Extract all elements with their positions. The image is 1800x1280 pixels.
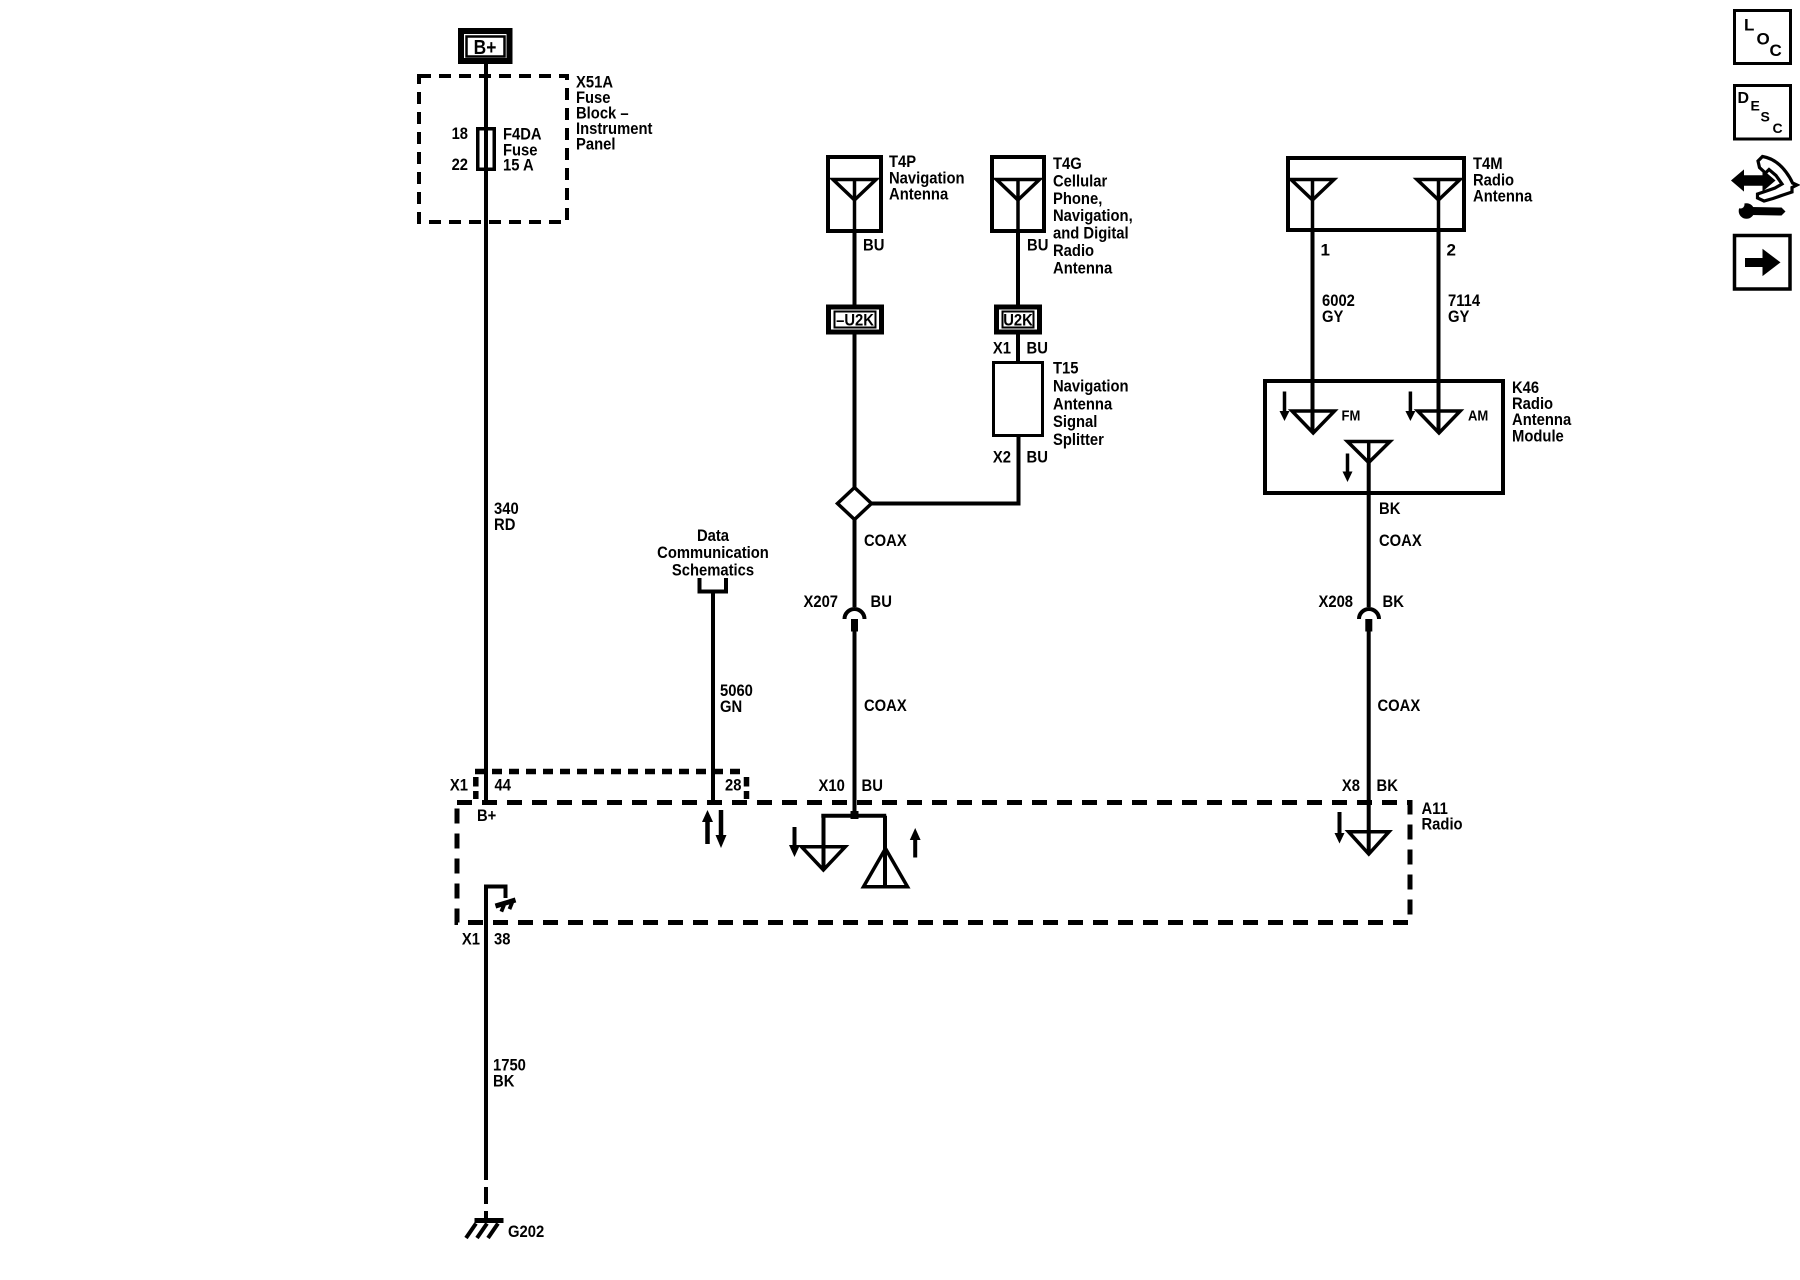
option box U2K <box>997 307 1040 332</box>
internal ground with chassis symbol <box>486 887 518 923</box>
svg-text:Panel: Panel <box>576 135 616 154</box>
X10 junction dot <box>851 811 859 819</box>
wire label 6002 GY <box>1322 291 1355 326</box>
svg-text:COAX: COAX <box>864 696 907 715</box>
svg-text:1: 1 <box>1321 241 1330 260</box>
fuse F4DA <box>478 129 495 170</box>
svg-text:X208: X208 <box>1319 592 1354 611</box>
wire X208 to radio X8 <box>1367 632 1371 854</box>
label T4G Cellular Phone, Navigation, and Digital Radio Antenna <box>1053 154 1133 277</box>
svg-text:GY: GY <box>1448 307 1470 326</box>
antenna symbol in T4P <box>833 180 876 234</box>
svg-text:BU: BU <box>1027 236 1048 255</box>
fuse block X51A dashed box <box>419 76 567 222</box>
wire U2K to T15 pin X1 <box>1016 335 1020 362</box>
connector X208 <box>1319 592 1405 632</box>
wire: B+ feed down to radio pin 44 <box>484 64 488 801</box>
svg-text:BK: BK <box>1379 499 1401 518</box>
svg-text:Radio: Radio <box>1053 241 1094 260</box>
wire K46 to X208 <box>1367 461 1371 607</box>
svg-text:X2: X2 <box>993 448 1011 467</box>
svg-text:BK: BK <box>493 1072 515 1091</box>
svg-text:X1: X1 <box>450 776 468 795</box>
wire bracket to radio pin 28 <box>711 594 715 802</box>
radio A11 dashed box <box>457 803 1410 923</box>
wire diamond to X207 <box>853 520 857 608</box>
wire diamond to T15 X2 <box>872 437 1019 504</box>
svg-text:Antenna: Antenna <box>1053 258 1113 277</box>
svg-text:18: 18 <box>452 124 468 143</box>
splice diamond <box>838 488 872 520</box>
svg-text:GY: GY <box>1322 307 1344 326</box>
svg-text:BU: BU <box>1027 448 1048 467</box>
svg-text:Communication: Communication <box>657 543 769 562</box>
svg-text:38: 38 <box>494 930 510 949</box>
svg-text:22: 22 <box>452 155 468 174</box>
label Data Communication Schematics <box>657 526 769 579</box>
svg-text:U2K: U2K <box>1003 311 1033 330</box>
svg-text:44: 44 <box>495 776 512 795</box>
wire label 1750 BK <box>493 1056 526 1091</box>
antenna symbol 1 in T4M <box>1291 180 1334 233</box>
svg-text:L: L <box>1744 16 1754 35</box>
svg-text:X10: X10 <box>819 776 845 795</box>
connector X1 dotted box with pins 44 and 28 <box>475 772 747 800</box>
radio antenna module K46 box <box>1265 381 1503 493</box>
svg-text:E: E <box>1751 98 1760 114</box>
navigation antenna T4P box <box>828 157 881 231</box>
diagnostic icon (double arrow, outline arrow, wrench) <box>1731 157 1797 219</box>
antenna symbol 2 in T4M <box>1417 180 1460 233</box>
wire T4M pin2 to K46 AM <box>1437 230 1441 432</box>
svg-text:28: 28 <box>725 776 741 795</box>
wire T4G to U2K <box>1016 233 1020 306</box>
connector X207 <box>804 592 892 632</box>
svg-text:BU: BU <box>862 776 883 795</box>
label K46 Radio Antenna Module <box>1512 378 1572 446</box>
svg-text:2: 2 <box>1447 241 1456 260</box>
svg-text:G202: G202 <box>508 1222 544 1241</box>
hyperlink arrow icon box <box>1735 236 1791 290</box>
option box -U2K <box>829 307 882 332</box>
splitter T15 box <box>994 363 1043 436</box>
down arrow left of input <box>789 827 800 857</box>
svg-text:D: D <box>1738 90 1750 107</box>
svg-text:Navigation,: Navigation, <box>1053 206 1133 225</box>
radio antenna T4M box <box>1288 158 1464 230</box>
svg-text:and Digital: and Digital <box>1053 224 1129 243</box>
svg-text:T4G: T4G <box>1053 154 1082 173</box>
svg-text:BU: BU <box>1027 339 1048 358</box>
svg-text:C: C <box>1773 120 1783 136</box>
svg-text:X1: X1 <box>993 339 1011 358</box>
svg-text:Cellular: Cellular <box>1053 171 1108 190</box>
wire T4P to -U2K <box>853 233 857 306</box>
wire -U2K to splice diamond <box>853 335 857 490</box>
svg-text:COAX: COAX <box>1379 531 1422 550</box>
combined antenna output symbol <box>1343 442 1391 483</box>
svg-text:Data: Data <box>697 526 730 545</box>
svg-text:BU: BU <box>863 236 884 255</box>
wire label 340 RD <box>494 499 519 534</box>
wire T4M pin1 to K46 FM <box>1311 230 1315 432</box>
svg-text:X207: X207 <box>804 592 839 611</box>
svg-text:Navigation: Navigation <box>1053 377 1129 396</box>
svg-text:BU: BU <box>871 592 892 611</box>
wire radio pin 38 to ground <box>484 922 488 1163</box>
svg-text:FM: FM <box>1342 407 1361 424</box>
wire X207 to radio X10 <box>853 632 857 814</box>
svg-text:S: S <box>1761 109 1770 125</box>
svg-text:Phone,: Phone, <box>1053 189 1102 208</box>
DESC icon box <box>1735 86 1791 140</box>
svg-text:Antenna: Antenna <box>1473 187 1533 206</box>
power symbol B+ <box>461 31 510 61</box>
svg-text:C: C <box>1770 41 1782 60</box>
svg-text:X8: X8 <box>1342 776 1360 795</box>
svg-text:AM: AM <box>1468 407 1488 424</box>
up arrow right of output <box>910 828 921 858</box>
svg-text:RD: RD <box>494 515 515 534</box>
svg-text:COAX: COAX <box>864 531 907 550</box>
label T15 Navigation Antenna Signal Splitter <box>1053 359 1129 449</box>
X8 ground branch inside radio <box>1335 812 1390 854</box>
wire label 7114 GY <box>1448 291 1481 326</box>
svg-text:T15: T15 <box>1053 359 1079 378</box>
svg-text:COAX: COAX <box>1378 696 1421 715</box>
svg-text:B+: B+ <box>477 806 496 825</box>
svg-text:GN: GN <box>720 697 742 716</box>
cellular antenna T4G box <box>992 157 1044 231</box>
ground G202 symbol <box>466 1221 504 1239</box>
off-page bracket <box>700 578 727 592</box>
antenna symbol in T4G <box>997 180 1040 234</box>
svg-text:15 A: 15 A <box>503 156 534 175</box>
antenna input branch inside radio <box>802 816 908 887</box>
svg-text:–U2K: –U2K <box>836 311 874 330</box>
wire label 5060 GN <box>720 681 753 716</box>
FM input symbol <box>1280 392 1361 434</box>
dashed wire to G202 <box>484 1163 488 1219</box>
svg-text:BK: BK <box>1383 592 1405 611</box>
svg-text:B+: B+ <box>474 37 497 59</box>
svg-text:Module: Module <box>1512 426 1564 445</box>
svg-text:Antenna: Antenna <box>889 185 949 204</box>
AM input symbol <box>1405 392 1488 434</box>
fuse value label F4DA Fuse 15 A <box>503 125 542 175</box>
svg-text:Splitter: Splitter <box>1053 430 1104 449</box>
label X51A Fuse Block - Instrument Panel <box>576 73 653 154</box>
data arrows at pin 28 <box>702 810 727 848</box>
svg-text:X1: X1 <box>462 930 480 949</box>
svg-text:BK: BK <box>1377 776 1399 795</box>
label A11 Radio <box>1422 799 1463 834</box>
svg-text:Antenna: Antenna <box>1053 394 1113 413</box>
label T4P Navigation Antenna <box>889 152 965 204</box>
svg-text:Schematics: Schematics <box>672 560 754 579</box>
svg-text:Signal: Signal <box>1053 412 1097 431</box>
svg-text:O: O <box>1757 30 1770 49</box>
svg-text:Radio: Radio <box>1422 815 1463 834</box>
LOC icon box <box>1735 11 1791 64</box>
label T4M Radio Antenna <box>1473 154 1533 206</box>
